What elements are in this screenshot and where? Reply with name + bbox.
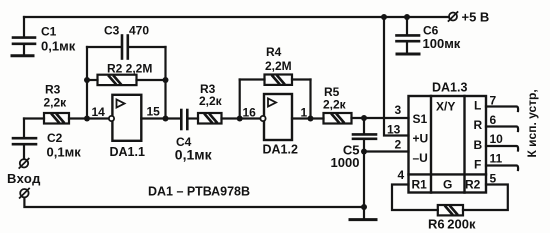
pin 6 wire <box>486 127 518 132</box>
svg-text:C1: C1 <box>41 25 57 39</box>
wire DA1.2 output to R5 <box>292 117 324 119</box>
wire R2 right stub <box>137 79 166 81</box>
op-amp DA1.2 <box>260 94 292 140</box>
svg-text:4: 4 <box>398 168 405 182</box>
ground (C6) <box>397 53 419 56</box>
svg-text:К исп. устр,: К исп. устр, <box>525 89 539 157</box>
wire R4 left stub <box>240 78 265 80</box>
wire R5 to pin 3 <box>352 117 409 119</box>
svg-text:+5 В: +5 В <box>462 10 490 25</box>
node bottom rail junction <box>361 204 367 210</box>
capacitor C5 <box>353 118 376 152</box>
wire C3 top right <box>128 46 166 48</box>
wire bottom rail <box>24 198 364 207</box>
node 1 junction <box>308 116 314 122</box>
pin 7 wire <box>486 107 518 112</box>
svg-text:2,2M: 2,2M <box>265 59 292 73</box>
svg-text:Вход: Вход <box>7 171 41 186</box>
svg-text:13: 13 <box>387 123 401 137</box>
node C5 top junction <box>361 115 367 121</box>
node 15 junction <box>163 116 169 122</box>
svg-text:DA1.3: DA1.3 <box>432 81 467 95</box>
svg-text:2,2к: 2,2к <box>199 94 223 108</box>
pin 5 wire and R6 loop right <box>463 185 508 211</box>
svg-text:6: 6 <box>490 113 497 127</box>
svg-text:B: B <box>474 138 483 152</box>
svg-text:L: L <box>474 99 481 113</box>
svg-text:R1: R1 <box>412 178 428 192</box>
pin 10 wire <box>486 146 518 151</box>
wire R3a to node 14 <box>69 117 87 119</box>
svg-text:R2: R2 <box>465 178 481 192</box>
wire feedback2 left vertical <box>239 80 241 119</box>
svg-text:14: 14 <box>92 105 106 119</box>
svg-text:2,2к: 2,2к <box>44 96 68 110</box>
wire R2 left stub <box>87 79 98 81</box>
svg-text:–U: –U <box>413 151 428 165</box>
svg-text:R6: R6 <box>428 217 445 232</box>
svg-text:S1: S1 <box>413 112 428 126</box>
wire node14 to DA1.1 input <box>87 117 109 119</box>
svg-text:1: 1 <box>301 106 308 120</box>
svg-text:3: 3 <box>395 103 402 117</box>
svg-text:R: R <box>474 118 483 132</box>
wire pin 2 <box>364 150 409 152</box>
svg-text:R2 2,2M: R2 2,2M <box>107 62 152 76</box>
svg-text:C3: C3 <box>104 24 120 38</box>
terminal Вход signal <box>19 159 28 168</box>
node 14 junction <box>84 116 90 122</box>
terminal +5 B <box>449 12 458 21</box>
node top rail junction to +U <box>381 14 387 20</box>
ground (main) <box>350 218 376 221</box>
pin 11 wire <box>486 166 518 171</box>
node R2 right junction <box>163 77 169 83</box>
node C5 bottom junction <box>361 149 367 155</box>
svg-text:X/Y: X/Y <box>436 100 455 114</box>
resistor R3 (first) <box>44 113 69 124</box>
resistor R4 <box>265 75 293 85</box>
svg-text:200к: 200к <box>447 217 476 232</box>
svg-text:100мк: 100мк <box>423 36 461 51</box>
wire C5 bottom to ground rail <box>363 152 365 208</box>
wire C4 to R3b <box>188 117 199 119</box>
wire R3b to node 16 <box>222 117 240 119</box>
svg-text:C2: C2 <box>47 131 63 145</box>
svg-text:F: F <box>474 158 481 172</box>
wire feedback2 right vertical <box>309 80 311 119</box>
wire DA1.1 output to node 15 <box>141 117 181 119</box>
wire +U supply vertical <box>384 17 409 136</box>
pin 4 wire and R6 loop left <box>392 185 438 211</box>
wire node16 to DA1.2 input <box>240 117 262 119</box>
svg-text:15: 15 <box>147 105 161 119</box>
svg-text:5: 5 <box>490 172 497 186</box>
svg-text:470: 470 <box>129 24 149 38</box>
capacitor C2 <box>13 119 36 160</box>
capacitor C1 <box>13 17 35 55</box>
svg-text:0,1мк: 0,1мк <box>175 147 213 163</box>
svg-text:0,1мк: 0,1мк <box>47 145 82 160</box>
IC DA1.3 box <box>409 96 487 193</box>
svg-text:10: 10 <box>490 132 504 146</box>
wire R4 right stub <box>292 78 311 80</box>
svg-text:+U: +U <box>413 132 429 146</box>
svg-text:G: G <box>443 178 452 192</box>
svg-text:0,1мк: 0,1мк <box>41 39 76 54</box>
node top rail junction to C6 <box>404 14 410 20</box>
resistor R2 <box>98 75 137 85</box>
wire top +5V rail <box>24 16 449 18</box>
wire C3 top left <box>87 46 122 48</box>
wire feedback left vertical (node 14 up) <box>86 47 88 119</box>
capacitor C3 <box>122 36 128 59</box>
op-amp DA1.1 <box>109 95 141 141</box>
resistor R3 (second) <box>198 113 222 124</box>
svg-text:2: 2 <box>395 138 402 152</box>
capacitor C6 <box>397 17 420 53</box>
svg-text:DA1 – РТВА978В: DA1 – РТВА978В <box>148 185 250 199</box>
svg-text:DA1.1: DA1.1 <box>110 145 145 159</box>
svg-text:R3: R3 <box>45 83 61 97</box>
ground (C1) <box>12 54 33 57</box>
node R2 left junction <box>84 77 90 83</box>
svg-text:16: 16 <box>243 106 257 120</box>
svg-text:R4: R4 <box>266 45 282 59</box>
svg-text:7: 7 <box>490 94 497 108</box>
svg-text:DA1.2: DA1.2 <box>263 143 298 157</box>
wire feedback right vertical (to node 15) <box>164 47 166 119</box>
wire ground stem <box>363 207 365 218</box>
terminal Вход ground <box>20 189 29 198</box>
capacitor C4 <box>181 110 187 129</box>
resistor R6 <box>438 205 463 215</box>
wire C2 to R3a <box>24 117 44 119</box>
svg-text:2,2к: 2,2к <box>323 98 347 112</box>
svg-text:1000: 1000 <box>331 155 360 170</box>
svg-text:11: 11 <box>490 152 503 166</box>
resistor R5 <box>324 113 352 124</box>
node 16 junction <box>237 116 243 122</box>
